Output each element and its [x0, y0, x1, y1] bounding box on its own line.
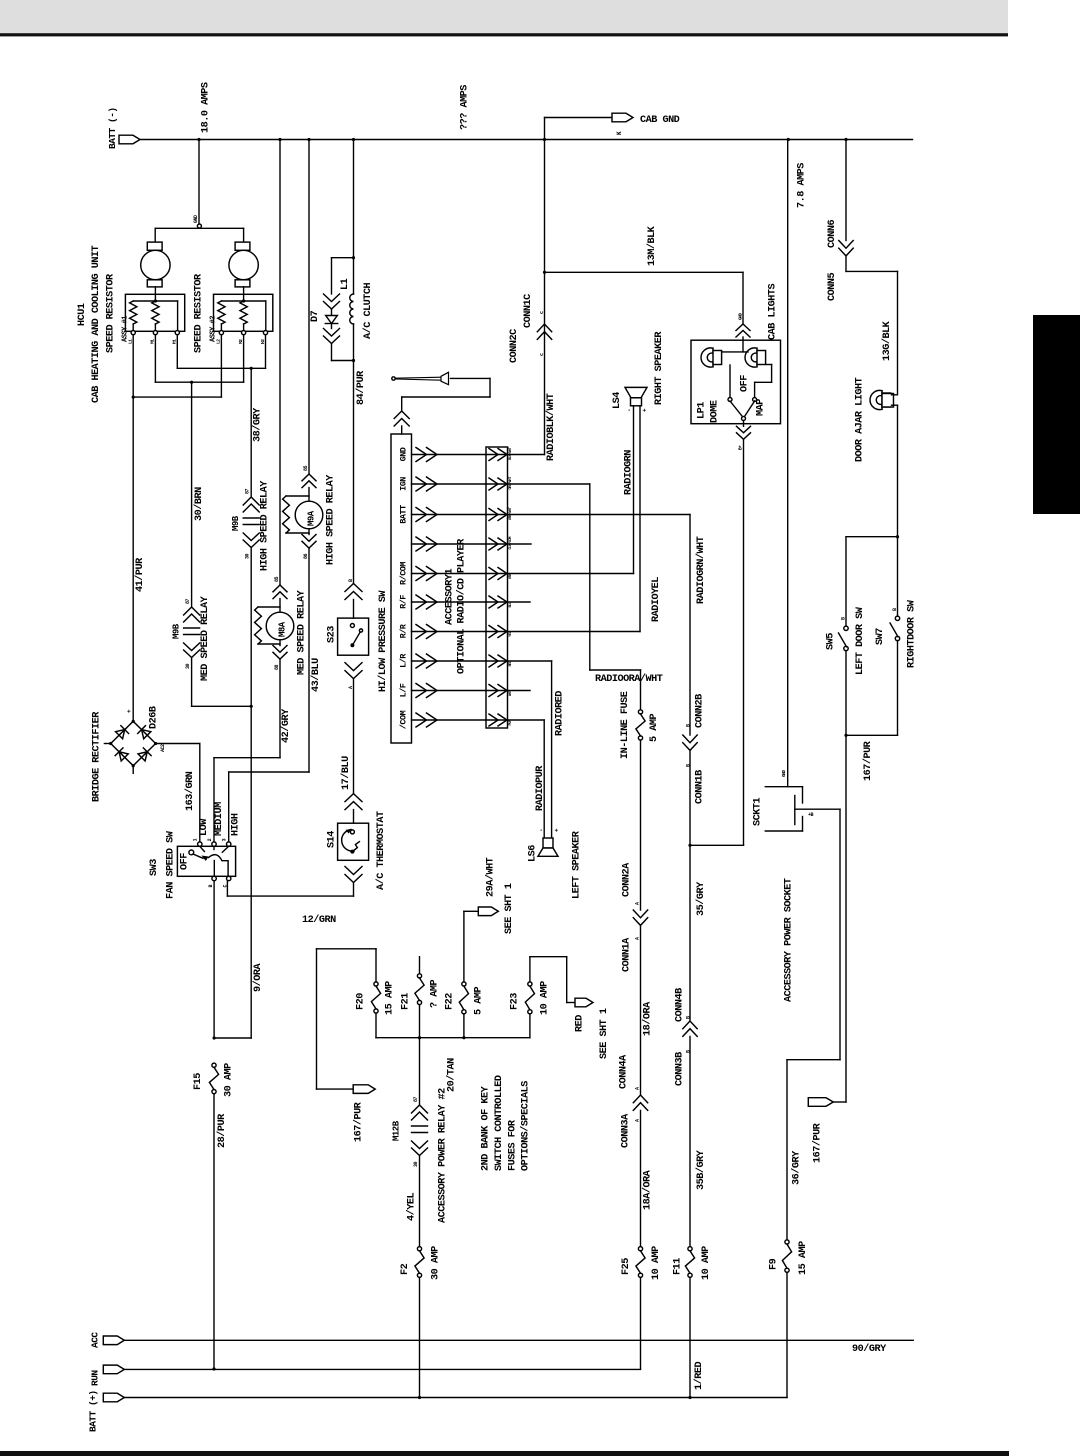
- svg-text:18A/ORA: 18A/ORA: [642, 1169, 654, 1210]
- svg-text:F2: F2: [400, 1263, 411, 1275]
- fuse F9 15 AMP: [785, 1240, 789, 1244]
- svg-text:GND: GND: [738, 313, 744, 320]
- svg-text:SEE SHT 1: SEE SHT 1: [599, 1008, 610, 1059]
- svg-text:41/PUR: 41/PUR: [134, 557, 146, 592]
- antenna: [392, 377, 395, 380]
- svg-text:LS6: LS6: [528, 845, 539, 862]
- svg-text:GND: GND: [193, 215, 199, 223]
- svg-text:35/GRY: 35/GRY: [695, 881, 707, 916]
- connector GND chevron (LP1): [736, 324, 750, 337]
- wire 35B/GRY: [689, 1036, 691, 1247]
- svg-text:15 AMP: 15 AMP: [798, 1241, 809, 1275]
- svg-text:ACCESSORY1: ACCESSORY1: [445, 568, 456, 625]
- svg-text:10 AMP: 10 AMP: [701, 1246, 712, 1280]
- svg-text:2ND BANK OF KEY: 2ND BANK OF KEY: [481, 1085, 492, 1171]
- svg-text:LP1: LP1: [697, 402, 708, 419]
- svg-text:A: A: [635, 937, 641, 940]
- svg-text:HIGH SPEED RELAY: HIGH SPEED RELAY: [260, 480, 271, 571]
- wire H1-H2 and 38/GRY: [176, 335, 178, 369]
- L/F row stub: [508, 690, 531, 692]
- wire 18A/ORA: [640, 1110, 642, 1247]
- svg-text:A: A: [635, 1087, 641, 1090]
- resistor SPEED RESISTOR ASSY #1: [154, 287, 156, 301]
- svg-text:30: 30: [185, 663, 191, 669]
- lamp DOOR AJAR LIGHT: [870, 390, 882, 409]
- svg-text:87: 87: [185, 598, 191, 604]
- svg-text:F15: F15: [193, 1073, 204, 1090]
- svg-text:18/ORA: 18/ORA: [642, 1001, 654, 1036]
- svg-text:42/GRY: 42/GRY: [280, 708, 292, 743]
- svg-text:30 AMP: 30 AMP: [431, 1246, 442, 1280]
- svg-text:1: 1: [193, 838, 199, 841]
- svg-text:F20: F20: [356, 993, 367, 1010]
- svg-text:87: 87: [245, 488, 251, 494]
- svg-text:A: A: [635, 902, 641, 905]
- svg-text:36/GRY: 36/GRY: [791, 1150, 803, 1185]
- svg-text:M9B: M9B: [231, 515, 241, 531]
- svg-text:38/GRY: 38/GRY: [252, 407, 264, 442]
- svg-text:+: +: [554, 828, 561, 832]
- svg-text:13G/BLK: 13G/BLK: [881, 320, 893, 361]
- svg-text:7.8 AMPS: 7.8 AMPS: [797, 163, 808, 208]
- svg-text:F22: F22: [445, 993, 456, 1010]
- svg-text:LEFT DOOR SW: LEFT DOOR SW: [855, 606, 866, 675]
- connector B+ chevron (LP1): [743, 421, 745, 427]
- wire M1-M2 and 30/BRN: [154, 335, 156, 383]
- svg-text:3: 3: [222, 838, 228, 841]
- svg-text:MED SPEED RELAY: MED SPEED RELAY: [200, 595, 211, 681]
- connector CONN2A/CONN1A: [633, 910, 647, 925]
- svg-text:BATT (-): BATT (-): [107, 107, 118, 149]
- speaker LS4 RIGHT SPEAKER: [625, 387, 647, 397]
- svg-text:CAB LIGHTS: CAB LIGHTS: [768, 283, 779, 340]
- svg-text:ACCESSORY POWER RELAY #2: ACCESSORY POWER RELAY #2: [438, 1088, 449, 1223]
- relay contact M12B (accessory power relay #2): [419, 1038, 421, 1105]
- svg-text:ASSY #2: ASSY #2: [210, 316, 218, 342]
- svg-text:HI/LOW PRESSURE SW: HI/LOW PRESSURE SW: [377, 590, 389, 692]
- wire RADIOORA/WHT (IGN row to in-line fuse): [508, 483, 590, 485]
- switch S14 A/C THERMOSTAT: [345, 794, 362, 810]
- svg-text:ACCESSORY POWER SOCKET: ACCESSORY POWER SOCKET: [784, 878, 795, 1002]
- wire SW3-C to S14: [226, 881, 228, 896]
- svg-text:163/GRN: 163/GRN: [184, 771, 196, 811]
- fuse F21 ? AMP: [419, 957, 421, 974]
- svg-text:CAB HEATING AND COOLING UNIT: CAB HEATING AND COOLING UNIT: [91, 245, 102, 403]
- svg-text:167/PUR: 167/PUR: [812, 1122, 824, 1163]
- radio pin CLK: [412, 543, 487, 545]
- svg-text:GRN/WHT: GRN/WHT: [508, 506, 513, 520]
- svg-text:M12B: M12B: [392, 1120, 402, 1141]
- svg-text:30 AMP: 30 AMP: [224, 1063, 235, 1097]
- svg-text:88: 88: [274, 664, 280, 670]
- motor blower 2: [235, 242, 250, 250]
- connector BATT (+): [103, 1393, 124, 1402]
- wire 163/GRN: [156, 743, 200, 745]
- svg-text:HCU1: HCU1: [77, 303, 88, 326]
- svg-text:1/RED: 1/RED: [693, 1362, 705, 1390]
- svg-text:85: 85: [303, 465, 309, 471]
- fuse F20 15 AMP: [375, 949, 377, 982]
- svg-text:10 AMP: 10 AMP: [540, 981, 551, 1015]
- svg-text:F21: F21: [401, 993, 412, 1010]
- connector ACC: [103, 1336, 124, 1345]
- wire A/C clutch feed: [353, 140, 355, 258]
- diode D7: [331, 258, 333, 294]
- svg-text:ACC: ACC: [90, 1332, 101, 1348]
- svg-text:SCKT1: SCKT1: [753, 798, 764, 826]
- svg-text:SEE SHT 1: SEE SHT 1: [504, 883, 515, 934]
- connector flag RED / SEE SHT 1: [566, 957, 568, 1003]
- svg-text:30: 30: [245, 553, 251, 559]
- wire 38/GRY / relay contact M9B (high speed): [250, 368, 252, 497]
- wire RADIOPUR (/COM to LS6): [508, 719, 545, 721]
- connector flag SEE SHT 1 (29A/WHT): [464, 910, 478, 912]
- svg-text:DOOR AJAR LIGHT: DOOR AJAR LIGHT: [855, 377, 866, 462]
- svg-text:L/R: L/R: [399, 653, 409, 668]
- svg-text:A/C THERMOSTAT: A/C THERMOSTAT: [375, 811, 387, 890]
- svg-text:SPEED RESISTOR: SPEED RESISTOR: [194, 273, 205, 353]
- wire 18/ORA: [640, 925, 642, 1095]
- svg-text:SWITCH CONTROLLED: SWITCH CONTROLLED: [494, 1075, 505, 1171]
- wire RADIOGRN/WHT (BATT row to CONN2B): [508, 514, 691, 516]
- svg-text:? AMP: ? AMP: [430, 980, 441, 1008]
- svg-text:S23: S23: [327, 626, 338, 643]
- wire 7.8 AMPS feed: [787, 140, 789, 787]
- svg-text:30: 30: [413, 1161, 419, 1167]
- clock row stub: [508, 543, 532, 545]
- svg-text:S14: S14: [327, 831, 338, 848]
- svg-text:SW5: SW5: [826, 633, 837, 650]
- wire 9/ORA: [250, 706, 252, 1038]
- inductor L1 (A/C clutch coil): [353, 258, 355, 294]
- svg-text:M9A: M9A: [307, 510, 317, 526]
- svg-text:87: 87: [413, 1096, 419, 1102]
- svg-text:D26B: D26B: [149, 706, 160, 729]
- fuse F22 5 AMP: [463, 911, 465, 982]
- wire RADIOYEL (R/R to LS4): [508, 631, 641, 633]
- svg-text:SPEED RESISTOR: SPEED RESISTOR: [106, 273, 117, 353]
- svg-text:A: A: [635, 1119, 641, 1122]
- svg-text:FUSES FOR: FUSES FOR: [508, 1119, 519, 1171]
- svg-text:17/BLU: 17/BLU: [340, 756, 352, 790]
- fuse F25 10 AMP: [638, 1247, 642, 1251]
- wire RADIOBLK/WHT (GND row up to CONN1C): [508, 454, 545, 456]
- svg-text:35B/GRY: 35B/GRY: [695, 1149, 707, 1190]
- svg-text:MAP: MAP: [756, 399, 767, 416]
- bridge rectifier D26B: [132, 397, 134, 721]
- connector BATT (-): [119, 135, 140, 144]
- svg-text:L1: L1: [340, 278, 351, 290]
- svg-text:DOME: DOME: [710, 400, 721, 423]
- svg-text:SW7: SW7: [875, 628, 886, 645]
- wire fuse bank bus: [376, 1037, 530, 1039]
- wire BATT(-) bus: [140, 139, 913, 141]
- svg-text:90/GRY: 90/GRY: [852, 1343, 887, 1355]
- connector flag 167/PUR: [833, 1101, 846, 1103]
- fuse F23 10 AMP: [529, 957, 531, 982]
- wire CONN6 drop: [845, 140, 847, 241]
- section tab (right edge): [1033, 315, 1080, 514]
- svg-text:+: +: [126, 709, 133, 713]
- wire SW3-B to F15: [213, 881, 215, 1038]
- svg-text:GND: GND: [781, 770, 787, 777]
- svg-text:CONN2C: CONN2C: [509, 329, 520, 363]
- svg-text:RADIOBLK/WHT: RADIOBLK/WHT: [545, 393, 557, 461]
- svg-text:5 AMP: 5 AMP: [649, 714, 660, 742]
- svg-text:RADIOYEL: RADIOYEL: [651, 577, 662, 622]
- svg-text:CONN4B: CONN4B: [675, 988, 686, 1022]
- svg-text:/COM: /COM: [399, 710, 409, 729]
- wire RADIORED (L/R to LS6): [508, 660, 552, 662]
- svg-text:R/R: R/R: [399, 623, 409, 638]
- svg-text:LS4: LS4: [612, 392, 623, 409]
- svg-text:+: +: [642, 408, 649, 412]
- wire 36/GRY: [786, 1272, 788, 1397]
- wire 84/PUR: [353, 361, 355, 584]
- svg-text:BRIDGE RECTIFIER: BRIDGE RECTIFIER: [92, 711, 103, 802]
- socket SCKT1 ACCESSORY POWER SOCKET: [765, 786, 802, 788]
- svg-text:RADIOPUR: RADIOPUR: [535, 765, 546, 811]
- svg-text:15 AMP: 15 AMP: [385, 981, 396, 1015]
- wire BATT(+) bus: [124, 1397, 787, 1399]
- svg-text:OPTIONS/SPECIALS: OPTIONS/SPECIALS: [520, 1081, 532, 1171]
- svg-text:-: -: [538, 829, 545, 832]
- wire RUN bus: [124, 1368, 640, 1370]
- wire L1-L2 and 41/PUR: [132, 335, 134, 397]
- fuse F11 10 AMP: [688, 1247, 692, 1251]
- svg-text:-: -: [626, 409, 633, 412]
- svg-text:L/F: L/F: [399, 683, 409, 697]
- connector RUN: [103, 1365, 124, 1374]
- svg-text:84/PUR: 84/PUR: [355, 370, 367, 405]
- svg-text:86: 86: [303, 553, 309, 559]
- wire LP1 B+ down: [743, 439, 745, 845]
- svg-text:F9: F9: [769, 1258, 780, 1270]
- svg-text:F25: F25: [621, 1258, 632, 1275]
- wire ACC bus 90/GRY: [124, 1339, 913, 1341]
- svg-text:CONN3A: CONN3A: [621, 1113, 632, 1148]
- fuse IN-LINE FUSE 5 AMP: [640, 670, 642, 710]
- svg-text:AC2: AC2: [160, 744, 166, 752]
- svg-text:167/PUR: 167/PUR: [862, 740, 874, 781]
- svg-text:13M/BLK: 13M/BLK: [646, 225, 658, 266]
- svg-text:MED SPEED RELAY: MED SPEED RELAY: [297, 589, 308, 675]
- svg-text:F11: F11: [673, 1258, 684, 1275]
- svg-text:HIGH: HIGH: [231, 813, 242, 836]
- svg-text:RUN: RUN: [90, 1370, 101, 1386]
- svg-text:RADIORED: RADIORED: [555, 691, 566, 736]
- motor blower 1: [147, 242, 162, 250]
- svg-text:28/PUR: 28/PUR: [216, 1113, 228, 1148]
- wire SCKT1 +B to F9: [839, 809, 841, 1059]
- svg-text:85: 85: [274, 576, 280, 582]
- page header gray band: [0, 0, 1008, 33]
- connector CONN6/CONN5: [839, 241, 853, 256]
- svg-text:BATT (+): BATT (+): [88, 1390, 99, 1432]
- svg-text:HIGH SPEED RELAY: HIGH SPEED RELAY: [326, 474, 337, 565]
- wire 13G/BLK: [846, 270, 898, 272]
- lamp LP1 DOME/MAP light: [691, 340, 781, 424]
- wire 4/YEL: [419, 1156, 421, 1248]
- svg-text:OPTIONAL RADIO/CD PLAYER: OPTIONAL RADIO/CD PLAYER: [456, 538, 468, 674]
- wire to CONN2A: [640, 740, 642, 910]
- wire 17/BLU: [353, 679, 355, 794]
- relay coil M9A (high speed relay): [308, 140, 310, 475]
- svg-text:LEFT SPEAKER: LEFT SPEAKER: [572, 830, 583, 899]
- svg-text:IN-LINE FUSE: IN-LINE FUSE: [620, 691, 631, 759]
- svg-text:9/ORA: 9/ORA: [252, 963, 264, 992]
- svg-text:RADIOGRN/WHT: RADIOGRN/WHT: [695, 536, 707, 604]
- svg-text:CONN5: CONN5: [827, 273, 838, 301]
- page footer black bar: [0, 1451, 1009, 1456]
- svg-text:12/GRN: 12/GRN: [302, 914, 336, 926]
- svg-text:18.0 AMPS: 18.0 AMPS: [201, 82, 212, 133]
- R/F row stub: [508, 601, 531, 603]
- svg-text:CONN4A: CONN4A: [619, 1054, 630, 1089]
- svg-text:K: K: [616, 131, 623, 135]
- svg-text:29A/WHT: 29A/WHT: [485, 857, 497, 897]
- svg-text:F23: F23: [510, 993, 521, 1010]
- svg-text:CAB GND: CAB GND: [640, 115, 680, 126]
- svg-text:BATT: BATT: [399, 505, 409, 524]
- svg-text:FAN SPEED SW: FAN SPEED SW: [166, 830, 177, 899]
- svg-text:??? AMPS: ??? AMPS: [460, 85, 471, 130]
- svg-text:BLK/WHT: BLK/WHT: [508, 446, 513, 460]
- svg-text:30/BRN: 30/BRN: [193, 487, 205, 521]
- svg-text:RIGHT SPEAKER: RIGHT SPEAKER: [654, 331, 665, 405]
- wire 1/RED: [689, 1277, 691, 1397]
- wire to door switches: [897, 405, 899, 616]
- svg-text:CONN2B: CONN2B: [695, 694, 706, 728]
- svg-text:CLK/COM: CLK/COM: [508, 536, 513, 550]
- svg-text:R/COM: R/COM: [399, 562, 409, 585]
- svg-text:B+: B+: [738, 445, 744, 450]
- svg-text:CONN1B: CONN1B: [695, 770, 706, 804]
- node GND (blower motors): [198, 140, 200, 225]
- svg-text:ASSY #1: ASSY #1: [122, 316, 130, 342]
- svg-text:ORA/WHT: ORA/WHT: [508, 476, 513, 490]
- resistor SPEED RESISTOR ASSY #2: [243, 287, 245, 301]
- wire 13M/BLK: [545, 271, 744, 273]
- svg-text:MEDIUM: MEDIUM: [214, 802, 225, 836]
- connector CAB GND: [544, 118, 546, 140]
- svg-text:43/BLU: 43/BLU: [310, 658, 322, 692]
- wire 28/PUR: [213, 1094, 215, 1369]
- svg-text:OFF: OFF: [740, 375, 751, 392]
- svg-text:GND: GND: [399, 447, 409, 461]
- relay contact M9B (med speed): [191, 382, 193, 607]
- svg-text:LOW: LOW: [199, 818, 210, 836]
- svg-text:RED: RED: [575, 1015, 586, 1032]
- svg-text:10 AMP: 10 AMP: [651, 1246, 662, 1280]
- svg-text:RADIOGRN: RADIOGRN: [624, 450, 635, 495]
- svg-text:20/TAN: 20/TAN: [446, 1058, 458, 1092]
- relay coil M8A (med speed relay): [279, 140, 281, 586]
- wire RADIOGRN (R/COM to LS4): [508, 573, 634, 575]
- svg-text:RADIOORA/WHT: RADIOORA/WHT: [595, 673, 663, 685]
- svg-text:5 AMP: 5 AMP: [474, 987, 485, 1015]
- radio unit box: [391, 434, 412, 743]
- svg-text:CONN6: CONN6: [827, 220, 838, 248]
- svg-text:2: 2: [207, 838, 213, 841]
- svg-text:+B: +B: [808, 812, 814, 818]
- wire 35/GRY: [689, 750, 691, 1021]
- wire 167/PUR (door sw join): [846, 734, 898, 736]
- svg-text:OFF: OFF: [180, 853, 191, 870]
- switch SW3 FAN SPEED SW: [213, 758, 215, 842]
- wire F20 feed / 167/PUR flag: [317, 948, 377, 950]
- svg-text:M8A: M8A: [278, 621, 288, 637]
- svg-text:B: B: [208, 885, 214, 888]
- svg-text:CONN1C: CONN1C: [523, 294, 534, 328]
- svg-text:CONN3B: CONN3B: [675, 1052, 686, 1086]
- svg-text:R/F: R/F: [399, 595, 409, 609]
- fuse F2 30 AMP: [417, 1247, 421, 1251]
- svg-text:D7: D7: [310, 310, 321, 322]
- wire antenna lead: [451, 377, 491, 379]
- svg-text:CONN2A: CONN2A: [622, 862, 633, 897]
- svg-text:RIGHTDOOR SW: RIGHTDOOR SW: [907, 599, 918, 668]
- svg-text:IGN: IGN: [399, 477, 409, 491]
- svg-text:A/C CLUTCH: A/C CLUTCH: [362, 282, 374, 339]
- fuse F15 30 AMP: [212, 1063, 216, 1067]
- svg-text:M9B: M9B: [172, 623, 182, 639]
- radio connector box: [486, 447, 508, 728]
- svg-text:167/PUR: 167/PUR: [353, 1101, 365, 1142]
- svg-text:SW3: SW3: [149, 859, 160, 876]
- svg-text:CONN1A: CONN1A: [622, 937, 633, 972]
- svg-text:4/YEL: 4/YEL: [406, 1193, 418, 1221]
